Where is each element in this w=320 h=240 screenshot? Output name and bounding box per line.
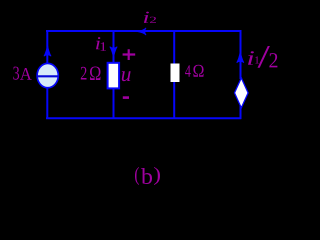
wire bottom node (46, 117, 241, 119)
label 4 Ohm (resistor value) (185, 65, 204, 77)
arrow down: current i1 into 2-ohm resistor (110, 47, 117, 58)
arrow up: direction of 3A source current (44, 45, 51, 56)
resistor 2 ohm body (108, 63, 120, 89)
arrow up: direction of dependent source current (237, 51, 244, 63)
wire 2-ohm branch upper segment (113, 30, 115, 63)
label 3A (source value) (13, 67, 31, 80)
label + polarity of u (123, 49, 136, 60)
label - polarity of u (123, 96, 129, 99)
label i2 (top wire current) (144, 12, 156, 23)
wire 2-ohm branch lower segment (113, 88, 115, 119)
label i1 (current through 2 ohm) (96, 37, 106, 51)
wire top node (left corner to right corner) (46, 30, 241, 32)
label i1/2 (controlled source value) (248, 46, 277, 68)
wire 4-ohm branch lower segment (173, 82, 175, 119)
wire left branch lower segment (46, 88, 48, 119)
wire right branch upper segment (240, 30, 242, 79)
wire right branch lower segment (240, 106, 242, 119)
resistor 4 ohm body (171, 64, 180, 83)
dependent current source i1/2 (diamond) (235, 78, 249, 108)
label 2 Ohm (resistor value) (81, 67, 101, 81)
wire 4-ohm branch upper segment (173, 30, 175, 64)
label u (voltage across 2 ohm) (122, 71, 131, 81)
wire left branch upper segment (46, 30, 48, 64)
current source 3A (circle with bar) (37, 63, 58, 87)
caption (b) (135, 167, 160, 185)
arrow left: current i2 along top wire (137, 28, 146, 35)
